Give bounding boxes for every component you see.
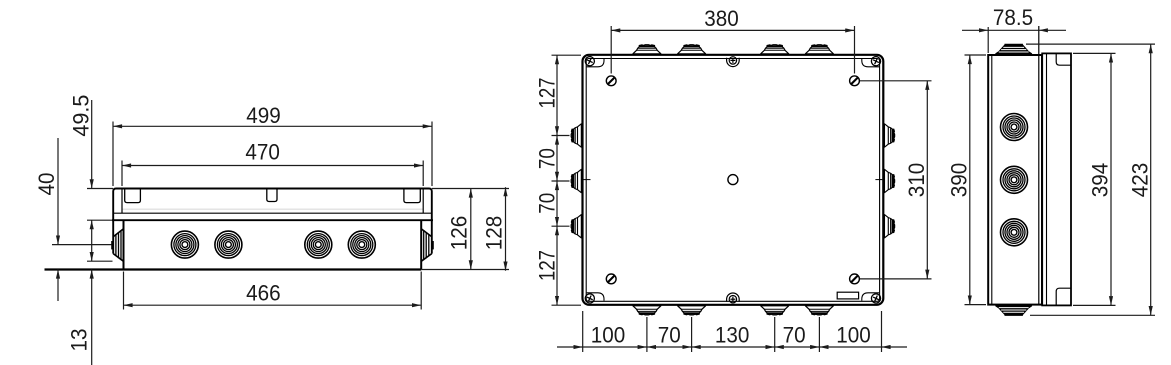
mid-edge tick left — [584, 179, 591, 181]
lid skirt line — [113, 212, 432, 214]
dim chain left 127/70/70/127 — [552, 54, 582, 56]
slotted screw TL — [606, 76, 616, 86]
top middle screw recess — [727, 58, 740, 67]
right view knockout circle 3 — [1001, 219, 1028, 246]
top edge knockout mesa 2 — [677, 45, 706, 56]
center view: junction box top view — [535, 6, 932, 352]
top edge knockout mesa 3 — [760, 45, 789, 56]
svg-text:70: 70 — [783, 323, 806, 348]
slotted screw BR — [850, 274, 860, 284]
mid-edge tick right — [875, 179, 882, 181]
dim 13 (gland bottom), outside arrows — [87, 260, 113, 262]
dim 470 — [121, 161, 123, 187]
dim chain bottom 100/70/130/70/100 — [582, 311, 584, 352]
lid clip notch right — [404, 189, 420, 203]
svg-text:423: 423 — [1127, 163, 1152, 198]
left edge knockout mesa 3 — [571, 214, 583, 238]
svg-text:127: 127 — [535, 250, 560, 281]
dim 380 (screw spacing) — [610, 26, 612, 74]
top dark mesa — [996, 44, 1032, 55]
svg-text:128: 128 — [482, 216, 507, 251]
lid inner left edge — [121, 189, 123, 214]
corner screw pad TL — [587, 59, 604, 67]
svg-text:70: 70 — [658, 323, 681, 348]
svg-text:127: 127 — [535, 78, 560, 109]
lid inner right edge — [422, 189, 424, 214]
bottom edge knockout mesa 3 — [760, 304, 789, 315]
center hole — [728, 175, 738, 185]
dim 390 — [965, 54, 987, 56]
knockout circle 2 — [215, 231, 242, 258]
svg-text:100: 100 — [591, 323, 626, 348]
svg-text:40: 40 — [34, 173, 59, 196]
top edge knockout mesa 1 — [633, 45, 662, 56]
lid clip notch center — [267, 189, 277, 202]
dim 394 — [1073, 52, 1116, 54]
label plate bottom right — [837, 292, 858, 299]
svg-text:130: 130 — [715, 323, 750, 348]
corner screw BR — [870, 292, 882, 304]
body left edge — [123, 220, 125, 269]
knockout circle 3 — [305, 231, 332, 258]
svg-text:394: 394 — [1088, 163, 1113, 198]
left edge knockout mesa 1 — [571, 123, 583, 147]
svg-text:390: 390 — [947, 163, 972, 198]
lid outline (sides continue down to gland tips) — [113, 189, 432, 254]
corner screw pad BR — [862, 293, 879, 301]
lid outline — [1042, 53, 1071, 305]
bottom middle screw recess — [727, 293, 740, 302]
svg-text:126: 126 — [447, 216, 472, 251]
corner screw pad TR — [862, 59, 879, 67]
svg-text:13: 13 — [67, 329, 92, 352]
left edge knockout mesa 2 — [571, 169, 583, 193]
knockout circle 4 — [348, 231, 375, 258]
right end gland — [421, 229, 433, 262]
bottom edge knockout mesa 1 — [633, 304, 662, 315]
dim 49.5 (lid height), outside arrows — [87, 188, 113, 190]
svg-text:70: 70 — [535, 193, 560, 214]
bottom middle screw — [729, 296, 736, 303]
top middle screw — [729, 57, 736, 64]
dim 423 — [1026, 43, 1155, 45]
box outer outline — [583, 55, 884, 305]
lid faint shelf line — [122, 208, 423, 210]
bottom dark mesa — [996, 305, 1032, 316]
knockout circle 1 — [171, 231, 198, 258]
lid clip top — [1056, 54, 1071, 65]
body right edge — [420, 220, 422, 269]
svg-text:380: 380 — [704, 6, 739, 31]
box inner (lid edge) line — [586, 59, 879, 302]
bottom edge knockout mesa 4 — [805, 304, 834, 315]
corner screw pad BL — [587, 293, 604, 301]
right view: junction box end elevation — [947, 5, 1156, 316]
svg-text:470: 470 — [245, 140, 280, 165]
body inner left line — [991, 55, 993, 305]
svg-text:466: 466 — [246, 281, 281, 306]
body right wall line (ext for 78.5) — [1038, 26, 1040, 305]
svg-text:499: 499 — [246, 103, 281, 128]
dim 128 — [505, 187, 507, 271]
slotted screw TR — [850, 76, 860, 86]
bottom edge knockout mesa 2 — [677, 304, 706, 315]
svg-text:78.5: 78.5 — [993, 5, 1033, 30]
corner screw BL — [584, 292, 596, 304]
right edge knockout mesa 1 — [883, 123, 895, 147]
dim 78.5, outside arrows — [987, 27, 989, 53]
lid inner line — [1046, 53, 1048, 305]
left view: junction box side elevation — [34, 95, 509, 365]
corner screw TR — [870, 55, 882, 67]
dim 466 — [123, 272, 125, 310]
right edge knockout mesa 2 — [883, 169, 895, 193]
body bottom edge (extends left for dims) — [45, 268, 422, 270]
right view knockout circle 2 — [1001, 166, 1028, 193]
svg-text:49.5: 49.5 — [69, 95, 94, 137]
svg-text:100: 100 — [836, 323, 871, 348]
body outline — [988, 55, 1042, 305]
right view knockout circle 1 — [1001, 114, 1028, 141]
top edge knockout mesa 4 — [805, 45, 834, 56]
slotted screw BL — [606, 274, 616, 284]
left end gland — [112, 229, 124, 262]
dim 499 — [112, 122, 114, 187]
lid bottom edge / body top — [112, 219, 433, 221]
lid clip notch left — [125, 189, 141, 203]
right edge knockout mesa 3 — [883, 214, 895, 238]
lid clip bottom — [1056, 288, 1071, 305]
svg-text:70: 70 — [535, 148, 560, 169]
corner screw TL — [584, 55, 596, 67]
dim 126 — [432, 188, 509, 190]
dim 310 (screw spacing vertical) — [860, 80, 932, 82]
dim 40 (centerline to bottom), outside arrows — [52, 244, 112, 246]
svg-text:310: 310 — [904, 163, 929, 198]
